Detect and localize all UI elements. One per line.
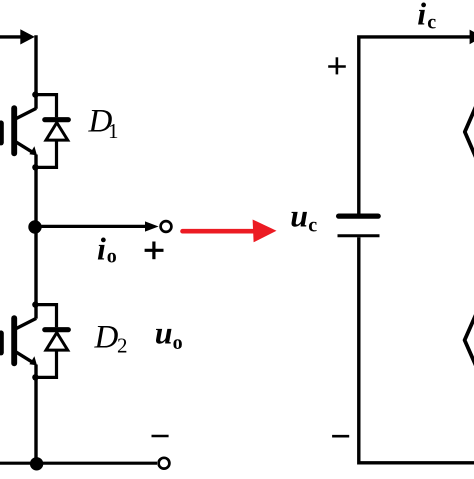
node: bottom junction [30,457,43,470]
svg-text:1: 1 [108,119,119,143]
node: Q1 collector junction [32,91,38,97]
transistor Q2 (IGBT) [1,318,37,365]
node: output junction (midpoint) [28,220,41,233]
label + at output terminal [145,242,164,260]
node: Q2 collector junction [32,301,38,307]
red transform arrow [183,220,277,243]
svg-text:o: o [173,332,183,354]
transistor Q1 (IGBT) [1,108,37,155]
wire: left rail between Q1 and Q2 [34,155,37,319]
dependent source diamond (upper, partial at edge) [465,102,474,163]
svg-text:u: u [290,198,308,234]
wire: output lead to + terminal [35,221,159,231]
svg-text:i: i [97,230,106,266]
svg-text:i: i [417,0,426,32]
svg-text:o: o [107,246,117,268]
wire: top input feed [0,29,35,44]
capacitor C (bottom plate) [338,234,380,237]
diode D1 [36,95,68,168]
dependent source diamond (lower, partial at edge) [465,310,474,371]
label + at capacitor [328,57,346,74]
svg-text:D: D [94,319,119,355]
node: Q2 emitter junction [32,374,38,380]
svg-text:c: c [308,215,317,237]
capacitor C (top plate) [339,214,379,219]
wire: left rail top (input corner down to Q1 collector) [34,35,37,109]
svg-text:u: u [155,314,173,350]
svg-text:c: c [427,12,436,34]
label − at output terminal [152,435,169,438]
wire: left rail bottom [34,365,37,465]
wire: capacitor bottom lead and bottom-right wire [359,237,474,463]
diode D2 [36,305,68,378]
terminal: output + (open circle) [161,221,172,232]
svg-text:2: 2 [117,333,128,357]
terminal: output − (open circle) [159,458,170,469]
label − at capacitor [332,435,349,438]
node: Q1 emitter junction [32,164,38,170]
wire: capacitor top lead and ic wire with arrow [359,30,474,214]
wire: bottom output lead [0,462,157,465]
